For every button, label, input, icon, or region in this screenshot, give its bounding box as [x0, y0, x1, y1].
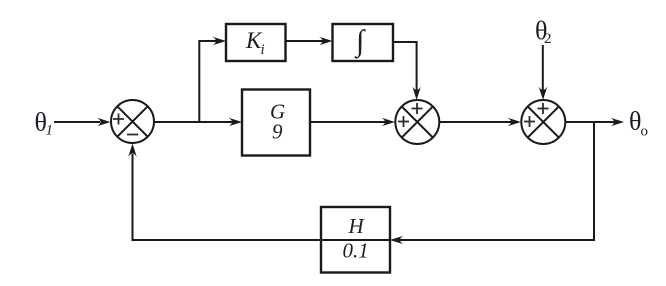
svg-text:2: 2 [544, 31, 552, 47]
svg-text:i: i [261, 42, 265, 58]
svg-text:9: 9 [272, 120, 283, 144]
svg-text:0.1: 0.1 [343, 239, 369, 263]
svg-text:o: o [641, 124, 649, 140]
svg-text:∫: ∫ [354, 25, 366, 60]
svg-text:1: 1 [46, 123, 54, 139]
svg-text:H: H [348, 214, 366, 238]
